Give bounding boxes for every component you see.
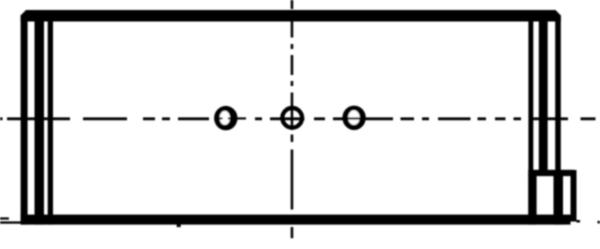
horizontal centerline (dash-dot through bore axis) bbox=[0, 117, 596, 120]
right wall line (steel back) bbox=[539, 20, 548, 171]
right end face line bbox=[555, 15, 561, 171]
locating lug (bottom right) bbox=[528, 170, 576, 225]
left wall line (steel back) bbox=[35, 20, 45, 225]
tick mark below joint face bbox=[177, 225, 181, 228]
vertical centerline (dash-dot through centre hole) bbox=[291, 0, 294, 238]
centre hole (thin ring with crosshair) bbox=[282, 108, 302, 128]
right oil hole (bold ring, centerline across) bbox=[342, 106, 365, 130]
bottom edge (joint face) bbox=[21, 215, 571, 225]
parting-plane dash-dot line, right extension bbox=[577, 220, 600, 223]
top edge (bearing back, with chamfered corners) bbox=[21, 10, 561, 22]
left oil hole (bold ring) bbox=[214, 106, 246, 130]
parting-plane dash-dot line, left extension bbox=[0, 217, 21, 223]
left end face line bbox=[21, 15, 28, 225]
left wall line (lining) bbox=[48, 20, 53, 225]
right wall line (lining) bbox=[528, 20, 533, 171]
